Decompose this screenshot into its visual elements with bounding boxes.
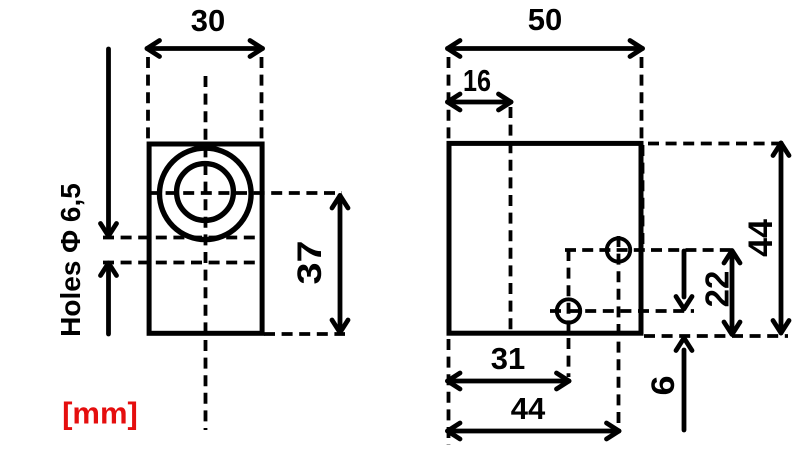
hole 1 — [607, 238, 630, 261]
dim 31 ext left — [447, 339, 451, 445]
dim 30 extension left — [146, 57, 150, 141]
svg-text:37: 37 — [291, 241, 329, 285]
dim 50 ext right — [640, 57, 644, 140]
hole 2 — [557, 299, 580, 322]
dim 37 leader bottom — [264, 332, 345, 336]
hole 1 vertical centerline — [617, 236, 621, 425]
svg-text:31: 31 — [491, 341, 525, 376]
left view body outline — [149, 144, 262, 333]
dim 30 line — [147, 41, 263, 57]
dim 50 ext left — [447, 57, 451, 140]
svg-text:6: 6 — [645, 376, 681, 396]
svg-text:Holes Φ 6,5: Holes Φ 6,5 — [55, 183, 86, 337]
dim 16 extension — [509, 107, 513, 333]
svg-text:30: 30 — [191, 3, 225, 38]
hole circle — [177, 164, 234, 221]
dim 37 line — [332, 196, 348, 333]
bottom edge extension — [644, 334, 788, 338]
svg-text:50: 50 — [528, 2, 562, 37]
hole 2 vertical centerline — [567, 250, 571, 377]
dim 6 lower arrow — [676, 338, 692, 430]
holes dim upper arrow — [101, 49, 117, 236]
svg-text:44: 44 — [511, 391, 546, 426]
top edge extension — [648, 142, 780, 146]
svg-text:16: 16 — [463, 63, 491, 98]
right view body outline — [449, 143, 641, 333]
dim 44 bottom line — [448, 423, 620, 439]
dim 30 extension right — [260, 57, 264, 141]
dim 44 right line — [773, 143, 789, 333]
hole projection line upper — [103, 236, 258, 240]
svg-text:44: 44 — [742, 219, 780, 257]
hidden edge line — [641, 145, 645, 250]
dim 16 line — [448, 94, 512, 110]
hole 2 horizontal centerline — [550, 309, 694, 313]
dim 31 line — [448, 373, 570, 389]
svg-text:[mm]: [mm] — [62, 396, 138, 431]
horizontal centerline — [148, 191, 342, 195]
holes dim lower arrow — [101, 263, 117, 334]
hole projection line lower — [103, 261, 258, 265]
counterbore circle — [160, 148, 252, 240]
hole 1 horizontal centerline — [565, 248, 733, 252]
vertical centerline — [204, 76, 208, 430]
svg-text:22: 22 — [699, 271, 736, 308]
dim 50 line — [448, 41, 643, 57]
dim 6 upper arrow — [676, 251, 692, 309]
dim 22 line — [724, 251, 740, 335]
